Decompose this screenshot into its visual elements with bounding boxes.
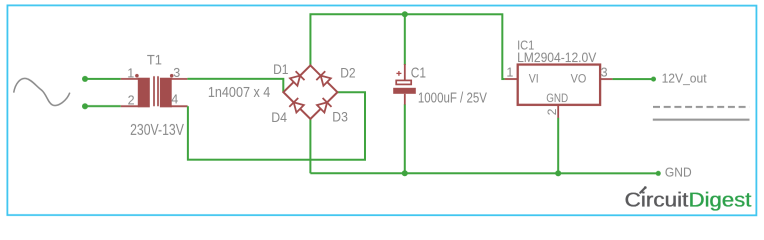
dashed divider line xyxy=(653,106,749,108)
svg-text:D3: D3 xyxy=(332,108,348,124)
svg-text:230V-13V: 230V-13V xyxy=(130,122,184,139)
svg-text:4: 4 xyxy=(171,92,178,106)
solid divider line xyxy=(653,119,750,121)
svg-text:D4: D4 xyxy=(271,109,287,125)
junction dot ground rail / IC1 GND xyxy=(555,170,561,176)
wire C1 bottom branch xyxy=(404,104,406,173)
primary winding xyxy=(138,78,150,108)
op-amp regulator IC1 xyxy=(505,37,613,117)
svg-text:VO: VO xyxy=(571,71,587,85)
node 12V_out endpoint dot xyxy=(651,77,656,82)
junction dot ground rail / C1 xyxy=(402,170,408,176)
svg-text:LM2904-12.0V: LM2904-12.0V xyxy=(517,49,597,65)
phase dot pin1 xyxy=(135,74,139,78)
svg-text:1: 1 xyxy=(506,66,513,80)
capacitor C1 xyxy=(393,64,487,107)
svg-text:2: 2 xyxy=(128,94,135,108)
svg-text:GND: GND xyxy=(546,91,568,105)
pin 2 lead xyxy=(121,105,139,107)
svg-text:Digest: Digest xyxy=(688,189,751,212)
pin 3 lead xyxy=(600,78,612,80)
secondary winding xyxy=(160,78,172,108)
svg-text:3: 3 xyxy=(173,66,180,80)
phase dot pin3 xyxy=(170,74,174,78)
svg-text:GND: GND xyxy=(665,165,692,180)
diode D1 xyxy=(290,71,305,86)
AC source squiggle xyxy=(14,78,70,105)
pin 2 lead xyxy=(557,105,559,118)
svg-text:T1: T1 xyxy=(147,51,162,67)
diode D4 xyxy=(289,98,304,113)
svg-text:1n4007 x 4: 1n4007 x 4 xyxy=(208,85,270,101)
svg-text:D2: D2 xyxy=(340,65,356,81)
wire transformer pin4 down and right to bridge AC2 corner xyxy=(188,92,365,160)
wire transformer pin3 to bridge AC1 corner xyxy=(187,79,283,92)
pin 1 lead xyxy=(121,78,139,80)
wire ground rail xyxy=(310,172,658,174)
diode D3 xyxy=(317,98,332,113)
node GND endpoint dot xyxy=(656,171,661,176)
svg-text:1000uF / 25V: 1000uF / 25V xyxy=(418,91,487,107)
core line 2 xyxy=(157,76,159,106)
pin 3 lead xyxy=(171,78,187,80)
svg-text:VI: VI xyxy=(529,71,539,85)
bridge rectifier diamond outline xyxy=(283,65,337,119)
svg-text:2: 2 xyxy=(545,108,559,115)
wire bridge - output down xyxy=(309,119,311,173)
top plate xyxy=(396,80,411,84)
node AC2 terminal dot xyxy=(82,103,88,109)
svg-text:1: 1 xyxy=(127,66,134,80)
node AC1 terminal dot xyxy=(82,76,88,82)
svg-text:C1: C1 xyxy=(411,65,426,81)
transformer T1 xyxy=(121,51,188,139)
logo accent over i xyxy=(640,188,644,193)
top lead xyxy=(404,64,406,80)
pin 1 lead xyxy=(505,78,518,80)
svg-text:12V_out: 12V_out xyxy=(662,70,707,85)
pin 4 lead xyxy=(171,105,188,107)
wire AC2 to transformer pin2 xyxy=(85,105,121,107)
bottom plate xyxy=(393,88,416,94)
logo CircuitDigest xyxy=(624,186,751,212)
plus sign xyxy=(396,72,401,74)
wire C1 top branch xyxy=(404,14,406,65)
wire bridge + output top rail to IC1 VI xyxy=(310,14,504,79)
core line 1 xyxy=(153,76,155,106)
wire IC1 GND down to ground rail xyxy=(557,118,559,174)
svg-text:3: 3 xyxy=(601,65,608,79)
svg-text:D1: D1 xyxy=(273,61,289,77)
junction dot top rail / C1 xyxy=(402,11,408,17)
bottom lead xyxy=(404,94,406,105)
wire AC1 to transformer pin1 xyxy=(85,78,121,80)
diode D2 xyxy=(316,71,331,86)
svg-text:Circuit: Circuit xyxy=(624,189,688,212)
wire IC1 VO to 12V_out xyxy=(612,78,653,80)
IC1 box xyxy=(518,65,600,105)
